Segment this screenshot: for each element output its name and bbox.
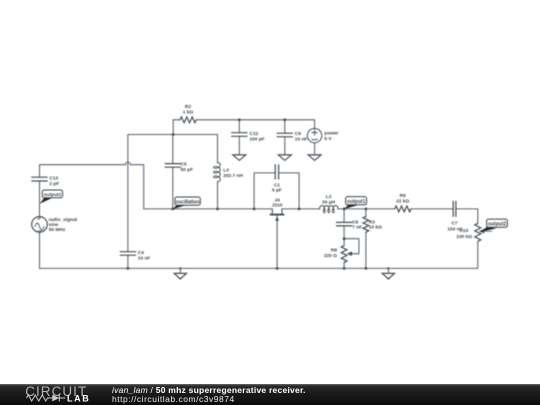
junction ground right: [387, 267, 389, 269]
flag output2 right: [480, 219, 508, 232]
transistor J4 channel: [272, 209, 282, 214]
wire jfet gate to rail: [276, 215, 278, 268]
flag oscillation: [173, 197, 200, 209]
svg-text:L3: L3: [223, 167, 229, 173]
junction R8 bottom: [343, 267, 346, 270]
wire second horizontal net A: [128, 134, 218, 136]
ground power: [308, 155, 321, 161]
flag output2 left: [40, 190, 63, 204]
inductor L3: [218, 163, 221, 182]
junction R8 wiper top: [343, 237, 346, 240]
svg-text:2 pF: 2 pF: [49, 181, 59, 187]
potentiometer R10 wiper stub: [483, 230, 492, 232]
wire R10 bottom: [477, 242, 479, 269]
svg-text:C1: C1: [274, 182, 280, 188]
junction ground left: [179, 267, 181, 269]
svg-text:202.7 nH: 202.7 nH: [223, 173, 243, 179]
svg-text:output2: output2: [44, 192, 62, 198]
svg-text:R10: R10: [460, 228, 469, 234]
ground bottom right: [382, 273, 394, 279]
capacitor C7 plates: [453, 201, 456, 216]
resistor R2: [180, 117, 196, 123]
wire C1 loop: [254, 173, 299, 209]
svg-text:C13: C13: [49, 175, 58, 181]
junction C12 top: [238, 118, 241, 121]
capacitor C4 plates: [120, 252, 135, 256]
capacitor C5 plates: [165, 164, 180, 168]
svg-text:6 V: 6 V: [324, 136, 332, 142]
ground C9: [278, 155, 291, 161]
svg-text:C7: C7: [451, 221, 457, 227]
wire upper mid rail left part: [173, 208, 272, 210]
svg-text:C12: C12: [249, 131, 258, 137]
wire C6 branch: [343, 209, 345, 239]
junction R3 top: [365, 208, 368, 211]
svg-text:30 μH: 30 μH: [322, 200, 336, 206]
wire top rail from R2 to power: [173, 119, 314, 121]
flag output1: [344, 197, 367, 209]
CircuitLab logo: [24, 385, 109, 405]
capacitor C1 plates: [275, 165, 278, 179]
ground bottom left: [174, 273, 186, 279]
jfet gate arrow: [275, 216, 279, 221]
wire C5 branch: [172, 135, 174, 209]
source power circle: [307, 128, 321, 142]
svg-text:50 MHz: 50 MHz: [49, 227, 66, 233]
resistor R3: [363, 217, 369, 233]
wire R3 leads: [365, 209, 367, 269]
svg-text:LAB: LAB: [67, 394, 90, 404]
svg-text:10 kΩ: 10 kΩ: [369, 225, 382, 231]
ground C12: [233, 155, 246, 161]
svg-text:22 kΩ: 22 kΩ: [396, 198, 409, 204]
resistor R6: [395, 206, 411, 212]
wire C13 branch top: [40, 165, 173, 209]
source power minus: [312, 139, 317, 141]
junction output1 node: [343, 208, 346, 211]
svg-text:100 pF: 100 pF: [249, 136, 264, 142]
svg-text:100 kΩ: 100 kΩ: [456, 234, 472, 240]
svg-text:5 pF: 5 pF: [272, 188, 282, 194]
svg-text:10 nF: 10 nF: [295, 136, 308, 142]
capacitor C13 plates: [32, 177, 47, 181]
wire C9 branch: [284, 120, 286, 155]
svg-text:10 nF: 10 nF: [138, 255, 151, 261]
junction gate bottom: [276, 267, 279, 270]
svg-text:C5: C5: [181, 161, 187, 167]
svg-text:J4: J4: [274, 198, 280, 204]
wire bottom rail: [40, 267, 478, 269]
junction C5 bottom: [171, 208, 174, 211]
capacitor C12 plates: [232, 133, 247, 137]
caption line 2: [112, 395, 235, 405]
wire C4 vertical branch: [127, 135, 129, 269]
svg-text:J310: J310: [272, 203, 283, 209]
svg-text:output1: output1: [347, 199, 366, 205]
wire R8 wiper loop: [344, 239, 359, 254]
wire ground stub left: [179, 268, 181, 273]
wire upper mid rail right of jfet: [282, 209, 478, 224]
wire L3 branch: [217, 135, 219, 209]
potentiometer R10 zigzag: [475, 223, 481, 241]
capacitor C6 plates: [336, 222, 351, 226]
wire source to bottom rail: [39, 232, 41, 268]
junction node A dot: [172, 133, 175, 136]
junction C1 right: [298, 208, 301, 211]
svg-text:50 pF: 50 pF: [181, 167, 194, 173]
junction L3 bottom: [216, 208, 219, 211]
wire R2 left lead down: [172, 120, 174, 135]
svg-text:C9: C9: [295, 131, 301, 137]
svg-text:R2: R2: [185, 104, 191, 110]
junction C9 top: [283, 118, 286, 121]
source radio_signal sine: [35, 223, 44, 230]
R10 wiper arrow: [479, 229, 484, 233]
caption line 1: [112, 386, 306, 396]
junction C1 left: [253, 208, 256, 211]
svg-text:R8: R8: [331, 248, 337, 254]
wire hop over crossing: [125, 162, 130, 165]
svg-text:oscillation: oscillation: [176, 200, 200, 206]
svg-text:output2: output2: [488, 222, 507, 228]
svg-text:7 nF: 7 nF: [352, 225, 362, 231]
source radio_signal circle: [32, 217, 48, 233]
svg-text:1 kΩ: 1 kΩ: [183, 109, 194, 115]
wire C13 to source: [39, 181, 41, 217]
svg-text:C4: C4: [138, 250, 144, 256]
wire power branch: [314, 120, 316, 155]
junction C4 bottom: [127, 267, 130, 270]
svg-text:power: power: [324, 130, 338, 136]
R8 wiper arrow: [347, 251, 352, 256]
wire C12 branch: [238, 120, 240, 155]
rheostat R8 zigzag: [341, 246, 347, 263]
footer bar: [0, 384, 540, 405]
capacitor C9 plates: [277, 133, 292, 137]
wire ground stub right: [387, 268, 389, 273]
svg-text:L2: L2: [326, 194, 332, 200]
svg-text:R6: R6: [400, 193, 406, 199]
source power plus: [312, 130, 317, 135]
svg-text:220 Ω: 220 Ω: [324, 253, 337, 259]
inductor L2: [320, 206, 338, 209]
junction R3 bottom: [365, 267, 368, 270]
wire R8 leads: [343, 239, 345, 269]
